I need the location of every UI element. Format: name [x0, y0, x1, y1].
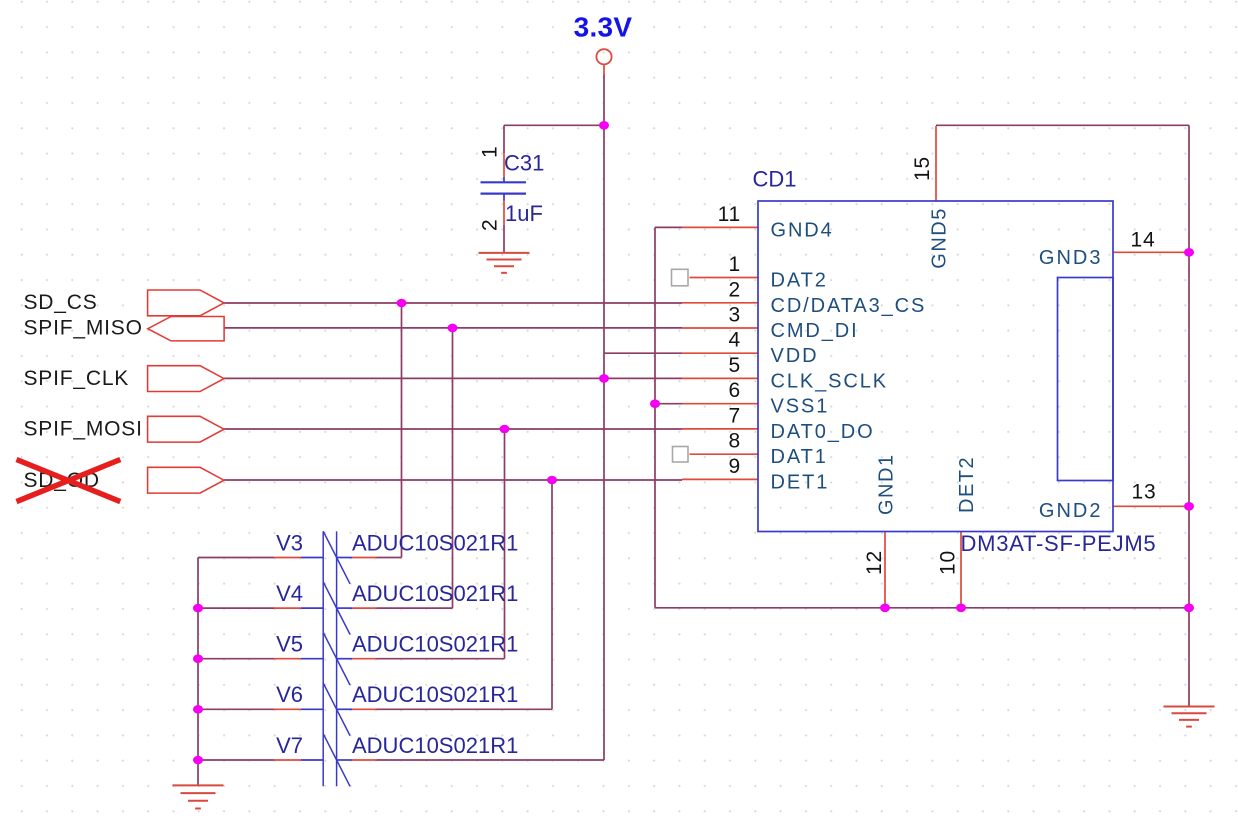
svg-text:SPIF_MOSI: SPIF_MOSI	[24, 417, 143, 440]
svg-text:14: 14	[1131, 228, 1156, 251]
svg-text:C31: C31	[504, 151, 544, 176]
svg-text:1: 1	[729, 253, 741, 276]
svg-text:11: 11	[718, 203, 741, 226]
svg-text:GND3: GND3	[1039, 247, 1103, 269]
svg-text:8: 8	[729, 430, 741, 453]
svg-text:3.3V: 3.3V	[574, 12, 633, 43]
svg-text:V4: V4	[276, 581, 303, 606]
svg-text:V3: V3	[276, 530, 303, 555]
svg-text:CMD_DI: CMD_DI	[771, 320, 859, 342]
svg-text:2: 2	[479, 219, 502, 231]
svg-text:10: 10	[937, 550, 960, 575]
svg-text:SPIF_MISO: SPIF_MISO	[24, 316, 143, 339]
svg-text:V6: V6	[276, 682, 303, 707]
svg-text:12: 12	[863, 550, 886, 575]
svg-text:V5: V5	[276, 632, 303, 657]
svg-text:SD_CS: SD_CS	[24, 291, 98, 314]
svg-text:9: 9	[729, 455, 741, 478]
svg-text:3: 3	[729, 304, 741, 327]
svg-text:V7: V7	[276, 733, 303, 758]
svg-text:5: 5	[729, 354, 741, 377]
svg-text:CLK_SCLK: CLK_SCLK	[771, 370, 888, 392]
svg-text:ADUC10S021R1: ADUC10S021R1	[352, 682, 518, 707]
svg-text:DET2: DET2	[956, 456, 978, 513]
svg-text:ADUC10S021R1: ADUC10S021R1	[352, 733, 518, 758]
svg-text:15: 15	[911, 156, 934, 181]
svg-text:1: 1	[479, 146, 502, 158]
svg-text:6: 6	[729, 379, 741, 402]
svg-text:13: 13	[1132, 481, 1157, 504]
svg-text:DM3AT-SF-PEJM5: DM3AT-SF-PEJM5	[961, 531, 1157, 556]
svg-text:ADUC10S021R1: ADUC10S021R1	[352, 530, 518, 555]
svg-text:1uF: 1uF	[505, 201, 543, 226]
svg-text:GND1: GND1	[876, 453, 898, 515]
svg-text:VDD: VDD	[771, 345, 819, 367]
svg-text:DAT2: DAT2	[771, 270, 828, 292]
svg-text:DAT1: DAT1	[771, 446, 828, 468]
svg-text:GND4: GND4	[771, 219, 834, 241]
svg-text:ADUC10S021R1: ADUC10S021R1	[352, 581, 518, 606]
svg-text:7: 7	[729, 404, 741, 427]
svg-text:VSS1: VSS1	[771, 396, 830, 418]
svg-text:DET1: DET1	[771, 471, 830, 493]
svg-text:DAT0_DO: DAT0_DO	[771, 421, 875, 443]
svg-text:4: 4	[729, 329, 741, 352]
svg-text:GND2: GND2	[1039, 500, 1103, 522]
svg-text:2: 2	[729, 278, 741, 301]
svg-text:CD1: CD1	[753, 167, 797, 192]
svg-text:GND5: GND5	[929, 207, 951, 269]
svg-text:CD/DATA3_CS: CD/DATA3_CS	[771, 295, 927, 317]
svg-text:ADUC10S021R1: ADUC10S021R1	[352, 632, 518, 657]
svg-text:SPIF_CLK: SPIF_CLK	[24, 367, 130, 390]
